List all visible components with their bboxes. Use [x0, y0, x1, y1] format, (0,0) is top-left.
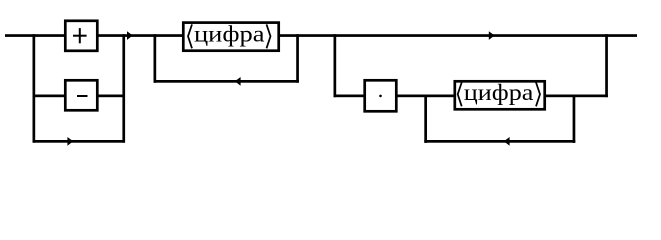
label plus [73, 35, 87, 37]
box minus sign [65, 80, 97, 110]
wire fraction horizontal [334, 95, 608, 98]
wire loop1 left vertical [154, 34, 157, 82]
wire merge vertical [122, 34, 125, 143]
wire bottom skip horizontal [33, 140, 125, 143]
wire loop2 bottom horizontal [424, 140, 575, 143]
svg-text:цифра: цифра [194, 22, 265, 47]
arrow right after sign merge [127, 31, 133, 40]
arrow right on bottom skip [67, 137, 73, 146]
wire loop1 bottom horizontal [154, 80, 299, 83]
wire left branch vertical [33, 34, 36, 143]
box plus sign [65, 21, 97, 51]
label digit 1 left angle bracket [188, 24, 192, 48]
label digit 2 right angle bracket [536, 82, 540, 106]
wire main horizontal line [5, 34, 637, 37]
wire minus path horizontal [33, 95, 125, 98]
wire loop2 left vertical [424, 95, 427, 143]
wire loop1 right vertical [296, 34, 299, 82]
wire loop2 right vertical [573, 95, 576, 143]
label minus [77, 95, 88, 97]
wire rejoin vertical [605, 34, 608, 97]
box decimal point [365, 80, 397, 111]
wire branch2 vertical [334, 34, 337, 97]
label digit 2 left angle bracket [458, 82, 462, 106]
box digit 1 [183, 23, 278, 51]
svg-text:цифра: цифра [464, 80, 534, 105]
label digit 1 right angle bracket [267, 24, 271, 48]
arrow right on main line before rejoin [489, 31, 495, 40]
label decimal point dot [379, 95, 382, 98]
box digit 2 [455, 81, 545, 109]
arrow left on loop1 [235, 77, 241, 86]
arrow left on loop2 [504, 137, 510, 146]
